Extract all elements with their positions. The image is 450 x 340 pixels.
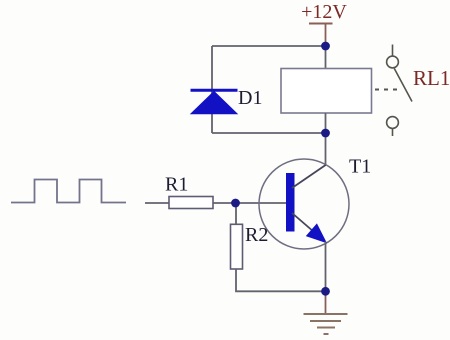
relay contact bottom terminal (387, 117, 399, 136)
resistor R2 (231, 224, 243, 269)
power +12V supply symbol (301, 1, 347, 46)
wire junction to relay coil top (325, 46, 327, 69)
wire R2 bottom to emitter junction (236, 269, 326, 291)
wire diode bottom to coil bottom junction (212, 132, 326, 134)
relay contact switch arm (394, 69, 412, 102)
svg-text:T1: T1 (349, 156, 371, 178)
relay coil RL1 body (281, 69, 372, 114)
wire emitter down to junction (325, 242, 327, 292)
ground (304, 291, 348, 334)
svg-text:R2: R2 (245, 224, 268, 246)
svg-text:RL1: RL1 (413, 66, 450, 90)
svg-text:R1: R1 (165, 174, 188, 196)
wire relay coil bottom to junction (325, 113, 327, 133)
wire top rail from diode top to +12V junction (212, 45, 326, 47)
relay linkage dashed line (375, 89, 399, 91)
svg-text:+12V: +12V (301, 1, 347, 23)
wire junction down to transistor collector (325, 133, 327, 166)
transistor T1 (NPN) (259, 159, 349, 249)
node junction top (+12V rail) (321, 42, 330, 51)
node base junction (231, 199, 240, 208)
wire R1 to base node (213, 202, 236, 204)
svg-text:D1: D1 (238, 87, 262, 109)
wire diode left vertical branch (211, 46, 213, 133)
node emitter junction (321, 287, 330, 296)
diode D1 (flyback, cathode up) (191, 90, 238, 113)
wire input to R1 (145, 202, 169, 204)
node junction bottom of coil (321, 129, 330, 138)
resistor R1 (169, 197, 213, 209)
wire base node down to R2 (235, 203, 237, 224)
relay contact top terminal (387, 45, 399, 68)
input square wave signal (11, 180, 126, 203)
wire base node to transistor base (236, 202, 287, 204)
